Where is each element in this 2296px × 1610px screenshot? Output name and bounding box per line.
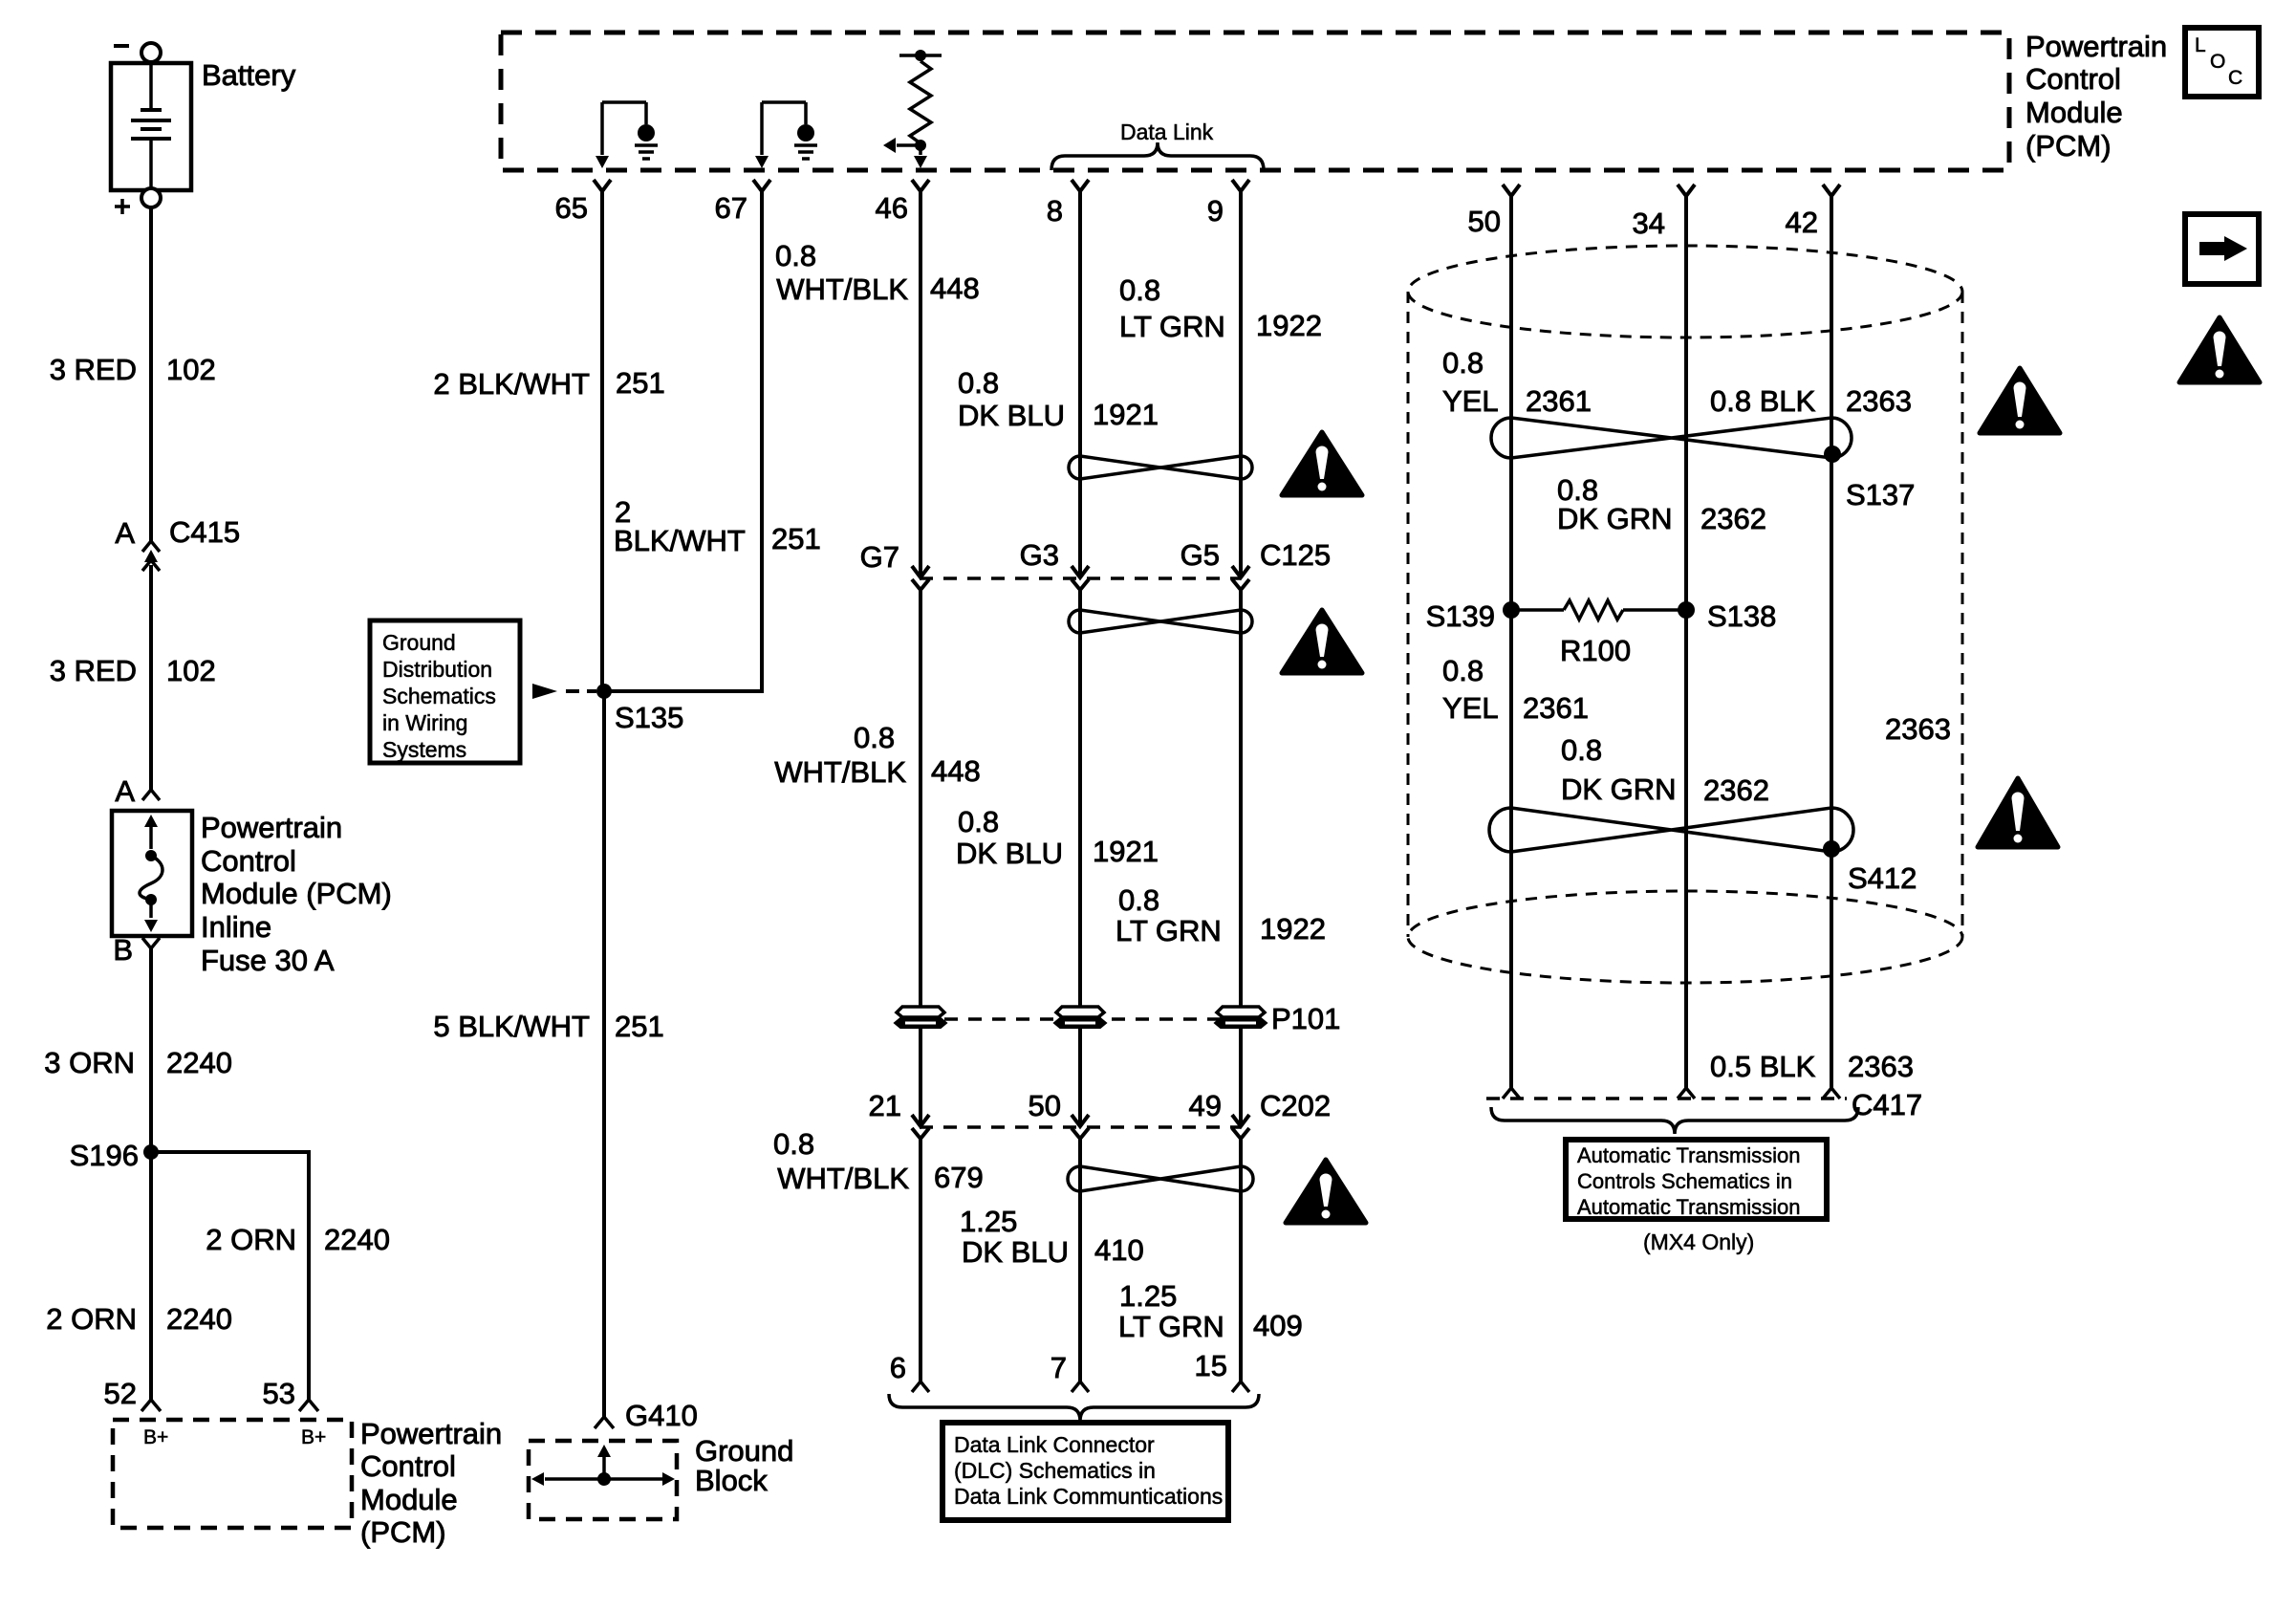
svg-text:DK GRN: DK GRN	[1561, 772, 1677, 806]
svg-text:2363: 2363	[1846, 384, 1912, 418]
warning triangle W3	[1286, 1160, 1366, 1223]
splice S137	[1824, 446, 1841, 463]
warning triangle W5	[1978, 778, 2058, 847]
svg-text:6: 6	[890, 1351, 906, 1384]
svg-text:2361: 2361	[1523, 691, 1589, 725]
svg-text:B+: B+	[301, 1426, 326, 1448]
svg-text:S135: S135	[615, 701, 683, 734]
svg-text:2362: 2362	[1703, 773, 1769, 807]
svg-text:1922: 1922	[1260, 912, 1326, 946]
svg-text:46: 46	[876, 191, 908, 225]
wire pin 8 down to G3	[1078, 191, 1082, 577]
svg-text:7: 7	[1051, 1351, 1067, 1384]
connector C202 pin 49	[1232, 1115, 1249, 1126]
twisted pair T4	[1491, 418, 1852, 458]
svg-text:42: 42	[1786, 206, 1818, 239]
svg-text:3 ORN: 3 ORN	[44, 1046, 135, 1079]
svg-text:DK BLU: DK BLU	[956, 837, 1063, 870]
svg-text:DK BLU: DK BLU	[962, 1235, 1069, 1269]
svg-text:410: 410	[1094, 1233, 1144, 1267]
svg-text:R100: R100	[1560, 634, 1631, 667]
svg-text:Ground: Ground	[382, 630, 456, 655]
transmission cylinder left side	[1407, 292, 1410, 937]
warning triangle W2	[1282, 610, 1362, 673]
twisted pair T1	[1069, 456, 1252, 479]
connector C125 pin G5	[1232, 566, 1249, 577]
PCM internal pull-up resistor R int	[899, 54, 942, 57]
svg-text:Powertrain: Powertrain	[2025, 30, 2167, 63]
LOC icon	[2185, 28, 2259, 97]
wire C415 to fuse	[149, 565, 153, 790]
svg-text:2240: 2240	[166, 1046, 232, 1079]
warning triangle W4	[1980, 368, 2060, 433]
svg-text:A: A	[115, 516, 135, 550]
svg-text:251: 251	[615, 1010, 664, 1043]
PCM U1 dashed box	[501, 33, 2009, 170]
splice S138	[1678, 601, 1695, 619]
svg-text:0.8: 0.8	[958, 366, 999, 400]
svg-text:DK BLU: DK BLU	[958, 399, 1065, 432]
svg-text:2 ORN: 2 ORN	[46, 1302, 137, 1336]
svg-text:50: 50	[1029, 1089, 1061, 1122]
wire pin 34 down to C417	[1684, 196, 1688, 1088]
svg-text:0.5 BLK: 0.5 BLK	[1710, 1050, 1816, 1083]
svg-text:15: 15	[1195, 1349, 1227, 1382]
svg-text:Data Link Connector: Data Link Connector	[954, 1432, 1155, 1457]
svg-text:2240: 2240	[324, 1223, 390, 1256]
wire fuse to S196	[149, 948, 153, 1152]
wire pin 67 down then left to S135	[604, 191, 762, 691]
svg-text:67: 67	[715, 191, 747, 225]
svg-text:S139: S139	[1426, 599, 1495, 633]
svg-text:52: 52	[104, 1377, 137, 1410]
PCM internal ground G2	[797, 124, 814, 141]
svg-text:1922: 1922	[1256, 309, 1322, 342]
svg-text:YEL: YEL	[1442, 691, 1499, 725]
transmission brace	[1491, 1107, 1858, 1134]
fuse F1 PCM inline fuse 30A	[112, 811, 192, 936]
wire pin 65 down to S135	[600, 191, 604, 691]
svg-text:WHT/BLK: WHT/BLK	[774, 755, 906, 789]
splice S135	[596, 684, 612, 699]
svg-text:Module (PCM): Module (PCM)	[201, 877, 392, 910]
svg-text:C125: C125	[1260, 538, 1331, 572]
svg-text:G5: G5	[1180, 538, 1220, 572]
svg-text:DK GRN: DK GRN	[1557, 502, 1673, 535]
svg-text:0.8: 0.8	[1118, 883, 1159, 917]
svg-text:Schematics: Schematics	[382, 684, 496, 708]
ground block internal	[597, 1445, 611, 1457]
svg-text:102: 102	[166, 353, 216, 386]
svg-text:C417: C417	[1852, 1088, 1922, 1121]
svg-text:Data Link: Data Link	[1120, 120, 1214, 144]
ground distribution arrow	[532, 684, 557, 699]
svg-text:Block: Block	[695, 1464, 768, 1497]
svg-text:Automatic Transmission: Automatic Transmission	[1577, 1143, 1801, 1167]
svg-text:0.8: 0.8	[773, 1127, 814, 1161]
svg-text:Distribution: Distribution	[382, 657, 492, 682]
PCM internal wire pin 67	[760, 102, 764, 155]
wire S196 branch right	[151, 1150, 309, 1154]
svg-text:409: 409	[1253, 1309, 1303, 1342]
svg-text:S138: S138	[1707, 599, 1776, 633]
wire G5 to 49	[1239, 590, 1243, 1125]
svg-text:B: B	[113, 933, 133, 967]
svg-text:448: 448	[931, 754, 981, 788]
PCM internal ground G1	[638, 124, 655, 141]
svg-text:in Wiring: in Wiring	[382, 710, 467, 735]
svg-text:Powertrain: Powertrain	[201, 811, 342, 844]
wire pin 9 down to G5	[1239, 191, 1243, 577]
svg-text:0.8: 0.8	[775, 239, 816, 272]
wire pin 42 down to C417	[1830, 196, 1833, 1088]
svg-text:53: 53	[263, 1377, 295, 1410]
transmission reference box	[1566, 1140, 1827, 1219]
svg-text:LT GRN: LT GRN	[1119, 310, 1225, 343]
svg-text:S137: S137	[1846, 478, 1915, 511]
twisted pair T2	[1069, 610, 1252, 633]
svg-text:34: 34	[1633, 207, 1665, 240]
wire S135 to G410	[602, 691, 606, 1417]
svg-text:8: 8	[1047, 194, 1063, 228]
svg-text:C202: C202	[1260, 1089, 1331, 1122]
svg-text:49: 49	[1189, 1089, 1222, 1122]
transmission cylinder top ellipse	[1408, 246, 1962, 337]
svg-text:102: 102	[166, 654, 216, 687]
connector C202 pin 21	[912, 1115, 929, 1126]
svg-text:G3: G3	[1020, 538, 1059, 572]
svg-text:(DLC) Schematics in: (DLC) Schematics in	[954, 1458, 1156, 1483]
battery	[111, 63, 191, 190]
DLC reference box	[942, 1423, 1228, 1520]
svg-text:WHT/BLK: WHT/BLK	[777, 1162, 909, 1195]
connector C202 pin 50	[1072, 1115, 1089, 1126]
twisted pair T3	[1068, 1166, 1253, 1191]
ground distribution reference box	[370, 620, 520, 763]
svg-text:Powertrain: Powertrain	[360, 1417, 502, 1450]
svg-text:448: 448	[930, 272, 980, 305]
svg-text:(PCM): (PCM)	[2025, 129, 2112, 163]
warning triangle W1	[1282, 432, 1362, 495]
PCM module lower dashed box	[113, 1420, 352, 1528]
arrow icon	[2185, 214, 2259, 284]
svg-text:2240: 2240	[166, 1302, 232, 1336]
svg-text:9: 9	[1207, 194, 1224, 228]
svg-text:S412: S412	[1848, 861, 1917, 895]
svg-text:1921: 1921	[1093, 835, 1159, 868]
battery positive terminal	[141, 188, 161, 207]
svg-text:BLK/WHT: BLK/WHT	[614, 524, 746, 557]
svg-text:O: O	[2210, 51, 2225, 73]
warning triangle margin	[2179, 317, 2260, 382]
svg-text:G410: G410	[625, 1399, 698, 1432]
svg-text:B+: B+	[143, 1426, 168, 1448]
svg-text:5 BLK/WHT: 5 BLK/WHT	[433, 1010, 590, 1043]
wire battery positive to C415	[149, 207, 153, 541]
svg-text:679: 679	[934, 1161, 984, 1194]
svg-text:WHT/BLK: WHT/BLK	[776, 272, 908, 306]
transmission cylinder bottom ellipse	[1408, 891, 1962, 983]
svg-text:50: 50	[1468, 205, 1501, 238]
svg-text:2 ORN: 2 ORN	[206, 1223, 296, 1256]
grommet P101 a	[897, 1007, 944, 1017]
wire G7 to 21	[919, 590, 922, 1125]
connector C125 pin G3	[1072, 566, 1089, 577]
Data Link brace	[1051, 142, 1264, 170]
wire 50 to DLC 7	[1078, 1139, 1082, 1382]
ground G410 connector	[595, 1417, 614, 1428]
svg-text:2361: 2361	[1526, 384, 1592, 418]
splice S412	[1823, 840, 1840, 858]
wire S196 to pin 52	[149, 1152, 153, 1400]
connector C417 pins	[1503, 1088, 1520, 1099]
svg-text:0.8: 0.8	[1119, 273, 1160, 307]
connector C202 dashed line	[920, 1125, 1241, 1129]
svg-text:P101: P101	[1271, 1002, 1340, 1035]
transmission cylinder right side	[1961, 292, 1964, 937]
battery negative terminal	[114, 44, 129, 48]
svg-text:(MX4 Only): (MX4 Only)	[1643, 1229, 1754, 1254]
svg-text:Ground: Ground	[695, 1434, 793, 1468]
svg-text:G7: G7	[860, 540, 899, 574]
svg-text:0.8: 0.8	[1442, 654, 1484, 687]
svg-text:2362: 2362	[1700, 502, 1766, 535]
svg-text:21: 21	[869, 1089, 901, 1122]
svg-text:LT GRN: LT GRN	[1118, 1310, 1224, 1343]
connector C125 dashed line	[920, 577, 1241, 580]
svg-text:0.8 BLK: 0.8 BLK	[1710, 384, 1816, 418]
grommet P101 b	[1056, 1007, 1104, 1017]
svg-text:0.8: 0.8	[1442, 346, 1484, 380]
svg-text:1.25: 1.25	[960, 1205, 1017, 1238]
svg-text:3 RED: 3 RED	[50, 353, 137, 386]
svg-text:2 BLK/WHT: 2 BLK/WHT	[433, 367, 590, 401]
svg-text:Control: Control	[360, 1449, 456, 1483]
svg-text:S196: S196	[70, 1139, 139, 1172]
wire G3 to 50	[1078, 590, 1082, 1125]
svg-text:1.25: 1.25	[1119, 1279, 1177, 1313]
svg-text:2363: 2363	[1848, 1050, 1914, 1083]
svg-text:A: A	[115, 774, 135, 808]
connector C125 pin G7	[912, 566, 929, 577]
svg-text:Inline: Inline	[201, 910, 271, 944]
svg-text:2363: 2363	[1885, 712, 1951, 746]
twisted pair T5	[1489, 808, 1853, 852]
svg-text:Battery: Battery	[202, 58, 296, 92]
svg-text:Systems: Systems	[382, 737, 466, 762]
svg-text:L: L	[2195, 34, 2206, 56]
PCM internal wire pin 65	[600, 102, 604, 155]
grommet P101 c	[1217, 1007, 1265, 1017]
svg-text:65: 65	[555, 191, 588, 225]
svg-text:Data Link Communtications: Data Link Communtications	[954, 1484, 1223, 1509]
svg-text:251: 251	[616, 366, 665, 400]
svg-text:Fuse 30 A: Fuse 30 A	[201, 944, 335, 977]
svg-text:Module: Module	[360, 1483, 458, 1516]
svg-text:Control: Control	[2025, 62, 2121, 96]
svg-text:C: C	[2228, 67, 2242, 89]
connector P101 dashed line	[921, 1017, 1241, 1021]
svg-text:(PCM): (PCM)	[360, 1515, 446, 1549]
svg-text:LT GRN: LT GRN	[1116, 914, 1222, 947]
svg-text:Control: Control	[201, 844, 296, 878]
resistor R100	[1519, 608, 1564, 612]
svg-text:Automatic Transmission: Automatic Transmission	[1577, 1195, 1801, 1219]
svg-text:0.8: 0.8	[1561, 733, 1602, 767]
svg-text:1921: 1921	[1093, 398, 1159, 431]
connector C417 dashed line	[1486, 1097, 1847, 1100]
svg-text:Module: Module	[2025, 96, 2123, 129]
ground block dashed box	[529, 1441, 677, 1519]
svg-text:0.8: 0.8	[958, 805, 999, 838]
wire 21 to DLC 6	[919, 1139, 922, 1382]
wire pin 46 down to G7	[919, 191, 922, 577]
svg-text:YEL: YEL	[1442, 384, 1499, 418]
svg-text:C415: C415	[169, 515, 240, 549]
svg-text:0.8: 0.8	[854, 721, 895, 754]
wire 49 to DLC 15	[1239, 1139, 1243, 1382]
wire pin 50 down to C417	[1509, 196, 1513, 1088]
svg-text:Controls Schematics in: Controls Schematics in	[1577, 1169, 1792, 1193]
svg-text:3 RED: 3 RED	[50, 654, 137, 687]
splice S196	[143, 1144, 159, 1160]
svg-text:251: 251	[771, 522, 821, 555]
DLC brace	[889, 1394, 1259, 1421]
